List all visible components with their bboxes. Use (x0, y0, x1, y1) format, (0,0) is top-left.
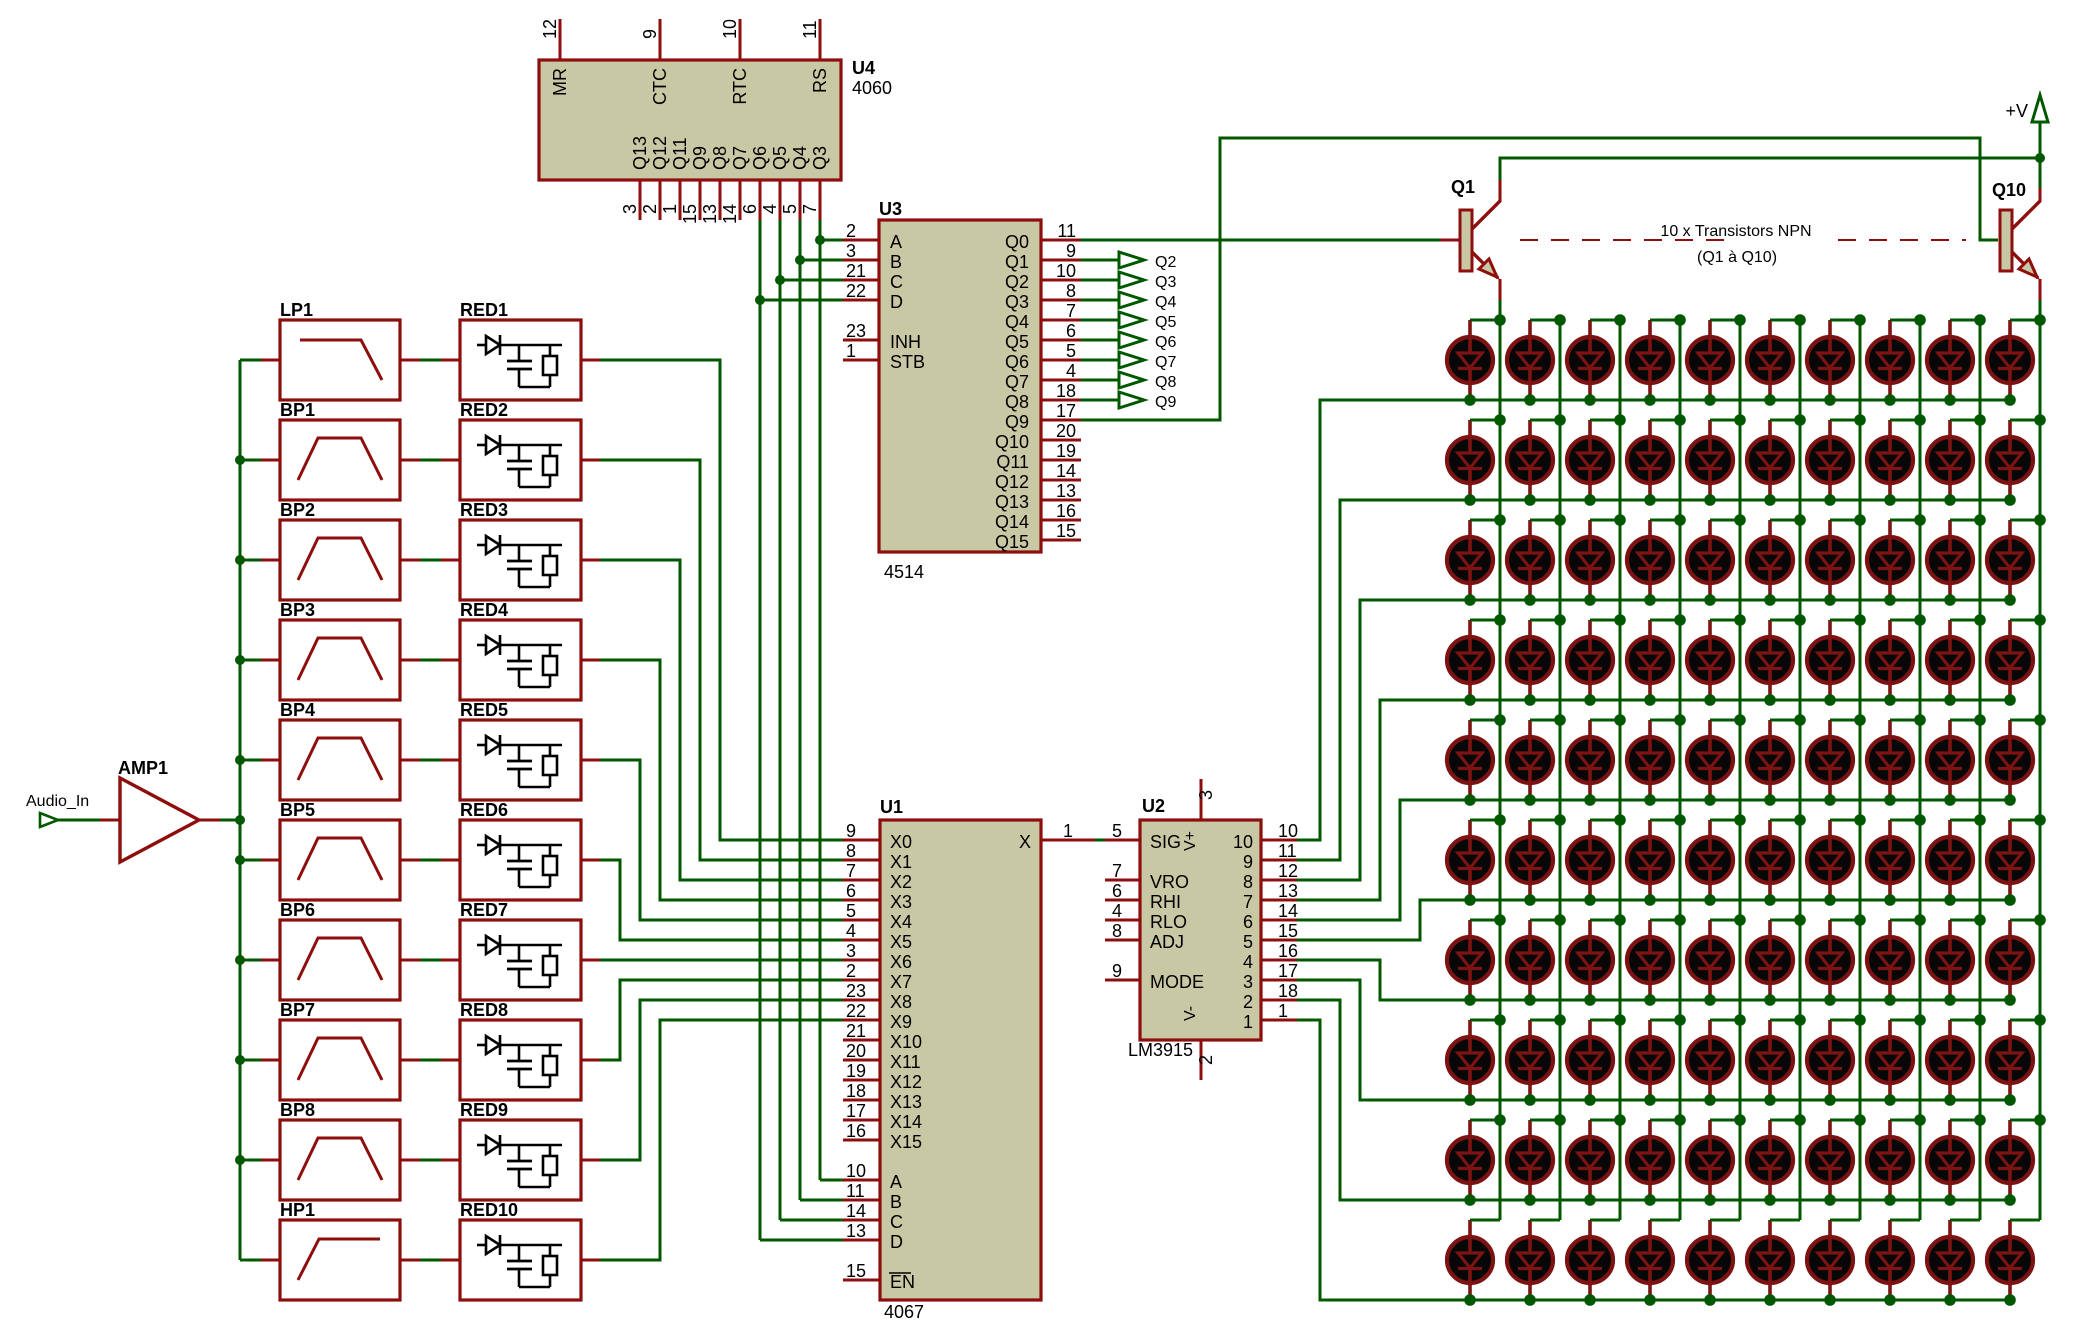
LED D79 (row 8, col 9) (1927, 1020, 1980, 1106)
LED D32 (row 4, col 2) (1507, 620, 1560, 706)
svg-text:X13: X13 (890, 1092, 922, 1112)
svg-text:BP8: BP8 (280, 1100, 315, 1120)
junction column 10 row 3 (2034, 514, 2046, 526)
wire BP5 output to RED6 input (400, 859, 420, 862)
LED D4 (row 1, col 4) (1627, 320, 1680, 406)
RED3 internal diode (477, 544, 486, 547)
junction column 4 row 8 (1674, 1014, 1686, 1026)
junction column 9 row 5 (1974, 714, 1986, 726)
wire RED9 output (581, 1159, 600, 1162)
junction column 1 row 7 (1494, 914, 1506, 926)
svg-text:Q4: Q4 (790, 146, 810, 170)
U2 left pin 8 (ADJ) (1105, 939, 1140, 942)
svg-text:10: 10 (720, 19, 740, 39)
wire U2 output to LED row y=1200 (1297, 1000, 2010, 1200)
junction column 5 row 2 (1734, 414, 1746, 426)
U3 left pin 23 (INH) (843, 339, 879, 342)
RED2 internal resistor (543, 456, 557, 475)
transistor Q1 (NPN) (1460, 210, 1472, 271)
LED D75 (row 8, col 5) (1687, 1020, 1740, 1106)
LED D53 (row 6, col 3) (1567, 820, 1620, 906)
LED D97 (row 10, col 7) (1807, 1220, 1860, 1306)
RED3 internal resistor (543, 556, 557, 575)
LED D11 (row 2, col 1) (1447, 420, 1500, 506)
svg-text:BP6: BP6 (280, 900, 315, 920)
svg-text:6: 6 (1066, 321, 1076, 341)
junction filter bus (235, 1155, 245, 1165)
RED2 internal capacitor (518, 445, 521, 460)
svg-text:13: 13 (700, 204, 720, 224)
svg-text:Q15: Q15 (995, 532, 1029, 552)
filter block BP2 (280, 520, 400, 600)
wire bus to BP2 input (240, 559, 261, 562)
junction column 10 row 2 (2034, 414, 2046, 426)
svg-text:Q6: Q6 (1005, 352, 1029, 372)
wire LED anode column 3 (1619, 320, 1622, 1220)
svg-text:5: 5 (846, 901, 856, 921)
LED D30 (row 3, col 10) (1987, 520, 2040, 606)
svg-text:V+: V+ (1182, 831, 1199, 851)
junction column 7 row 5 (1854, 714, 1866, 726)
junction column 3 row 9 (1614, 1114, 1626, 1126)
LED D36 (row 4, col 6) (1747, 620, 1800, 706)
svg-text:X0: X0 (890, 832, 912, 852)
svg-text:21: 21 (846, 1021, 866, 1041)
svg-text:X12: X12 (890, 1072, 922, 1092)
LED D26 (row 3, col 6) (1747, 520, 1800, 606)
U3 right pin 13 (Q13) (1041, 499, 1081, 502)
junction column 8 row 6 (1914, 814, 1926, 826)
junction column 5 row 4 (1734, 614, 1746, 626)
junction column 4 row 7 (1674, 914, 1686, 926)
LED D69 (row 7, col 9) (1927, 920, 1980, 1006)
svg-text:Q14: Q14 (995, 512, 1029, 532)
LED D38 (row 4, col 8) (1867, 620, 1920, 706)
U3 right pin 6 (Q5) (1041, 339, 1081, 342)
svg-text:X11: X11 (890, 1052, 921, 1072)
junction column 3 row 5 (1614, 714, 1626, 726)
LED D93 (row 10, col 3) (1567, 1220, 1620, 1306)
LED D57 (row 6, col 7) (1807, 820, 1860, 906)
wire U2 output to LED row y=1100 (1297, 980, 2010, 1100)
wire Q1 emitter to LED column 1 (1499, 300, 1502, 320)
rectifier block RED1 (460, 320, 581, 400)
LED D56 (row 6, col 6) (1747, 820, 1800, 906)
rectifier block RED5 (460, 720, 581, 800)
svg-text:X2: X2 (890, 872, 912, 892)
junction column 4 row 9 (1674, 1114, 1686, 1126)
junction column 4 row 4 (1674, 614, 1686, 626)
svg-text:CTC: CTC (650, 68, 670, 105)
RED3 internal capacitor (518, 545, 521, 560)
svg-text:X15: X15 (890, 1132, 922, 1152)
U2 right pin 11 (L9) (1261, 859, 1297, 862)
svg-text:9: 9 (846, 821, 856, 841)
wire RED1 to U1 input (600, 360, 843, 840)
svg-text:5: 5 (1066, 341, 1076, 361)
U4 bottom pin 15 (Q9) (699, 180, 702, 220)
junction column 3 row 6 (1614, 814, 1626, 826)
LED D63 (row 7, col 3) (1567, 920, 1620, 1006)
junction column 8 row 4 (1914, 614, 1926, 626)
svg-text:X14: X14 (890, 1112, 922, 1132)
LED D44 (row 5, col 4) (1627, 720, 1680, 806)
svg-text:10: 10 (1056, 261, 1076, 281)
svg-text:BP2: BP2 (280, 500, 315, 520)
wire U4 Q5 to U3.C and U1.C (779, 220, 782, 1220)
RED7 internal capacitor (518, 945, 521, 960)
svg-text:22: 22 (846, 1001, 866, 1021)
LED D92 (row 10, col 2) (1507, 1220, 1560, 1306)
wire U4 Q6 to U3.D and U1.D (759, 220, 762, 1240)
svg-text:X1: X1 (890, 852, 912, 872)
svg-text:1: 1 (1243, 1012, 1253, 1032)
svg-text:15: 15 (846, 1261, 866, 1281)
power symbol +V (2032, 95, 2048, 122)
filter block BP1 (280, 420, 400, 500)
svg-text:17: 17 (846, 1101, 866, 1121)
junction column 10 row 5 (2034, 714, 2046, 726)
svg-text:4514: 4514 (884, 562, 924, 582)
filter block BP8 (280, 1120, 400, 1200)
svg-text:BP3: BP3 (280, 600, 315, 620)
U1 left pin 6 (X3) (843, 899, 880, 902)
svg-text:10: 10 (1278, 821, 1298, 841)
U3 right pin 10 (Q2) (1041, 279, 1081, 282)
junction column 4 row 2 (1674, 414, 1686, 426)
LED D31 (row 4, col 1) (1447, 620, 1500, 706)
wire U3.Q2 to connector (1081, 279, 1119, 282)
LED D70 (row 7, col 10) (1987, 920, 2040, 1006)
junction column 8 row 9 (1914, 1114, 1926, 1126)
junction column 7 row 3 (1854, 514, 1866, 526)
LED D18 (row 2, col 8) (1867, 420, 1920, 506)
junction U3.B bus (795, 255, 805, 265)
svg-text:23: 23 (846, 981, 866, 1001)
wire U3.Q0 to Q1 base (1081, 239, 1440, 242)
junction column 3 row 8 (1614, 1014, 1626, 1026)
wire bus to BP1 input (240, 459, 261, 462)
LED D3 (row 1, col 3) (1567, 320, 1620, 406)
RED6 internal diode (477, 844, 486, 847)
U1 left pin 21 (X10) (843, 1039, 880, 1042)
svg-text:17: 17 (1056, 401, 1076, 421)
svg-text:4067: 4067 (884, 1302, 924, 1322)
LED D22 (row 3, col 2) (1507, 520, 1560, 606)
svg-text:1: 1 (1278, 1001, 1288, 1021)
svg-text:HP1: HP1 (280, 1200, 315, 1220)
svg-text:RED1: RED1 (460, 300, 508, 320)
svg-text:9: 9 (1066, 241, 1076, 261)
wire RED10 to U1 input (600, 1020, 843, 1260)
svg-text:7: 7 (1066, 301, 1076, 321)
junction column 8 row 2 (1914, 414, 1926, 426)
filter block BP6 (280, 920, 400, 1000)
filter block BP7 (280, 1020, 400, 1100)
svg-text:4060: 4060 (852, 78, 892, 98)
wire RED8 to U1 input (600, 980, 843, 1060)
wire U3.Q4 to connector (1081, 319, 1119, 322)
svg-text:RED5: RED5 (460, 700, 508, 720)
svg-text:(Q1 à Q10): (Q1 à Q10) (1697, 249, 1777, 266)
U1 left pin 4 (X5) (843, 939, 880, 942)
wire U3.Q9 to Q10 base (1081, 138, 1998, 420)
wire RED6 to U1 input (600, 860, 843, 940)
wire BP7 output to RED8 input (400, 1059, 420, 1062)
wire BP4 output to RED5 input (400, 759, 420, 762)
filter block LP1 (280, 320, 400, 400)
svg-text:Q3: Q3 (1155, 274, 1176, 291)
rectifier block RED8 (460, 1020, 581, 1100)
LED D20 (row 2, col 10) (1987, 420, 2040, 506)
svg-text:7: 7 (800, 204, 820, 214)
junction column 8 row 1 (1914, 314, 1926, 326)
svg-text:BP5: BP5 (280, 800, 315, 820)
svg-text:RED7: RED7 (460, 900, 508, 920)
filter block BP4 (280, 720, 400, 800)
junction column 9 row 8 (1974, 1014, 1986, 1026)
svg-text:STB: STB (890, 352, 925, 372)
junction column 2 row 9 (1554, 1114, 1566, 1126)
junction column 6 row 2 (1794, 414, 1806, 426)
LED D2 (row 1, col 2) (1507, 320, 1560, 406)
wire HP1 output to RED10 input (400, 1259, 420, 1262)
LED D1 (row 1, col 1) (1447, 320, 1500, 406)
junction column 9 row 4 (1974, 614, 1986, 626)
junction column 2 row 5 (1554, 714, 1566, 726)
wire U3.Q7 to connector (1081, 379, 1119, 382)
U2 left pin 9 (MODE) (1105, 979, 1140, 982)
U1 left pin 9 (X0) (843, 839, 880, 842)
svg-text:13: 13 (1056, 481, 1076, 501)
LED D46 (row 5, col 6) (1747, 720, 1800, 806)
U1 left pin 5 (X4) (843, 919, 880, 922)
op-amp AMP1 (120, 778, 199, 862)
svg-text:10: 10 (846, 1161, 866, 1181)
svg-text:8: 8 (846, 841, 856, 861)
LED D54 (row 6, col 4) (1627, 820, 1680, 906)
LED D23 (row 3, col 3) (1567, 520, 1620, 606)
svg-text:11: 11 (1278, 841, 1297, 861)
net connector Q2 (1119, 252, 1144, 268)
LED D89 (row 9, col 9) (1927, 1120, 1980, 1206)
svg-text:INH: INH (890, 332, 921, 352)
U3 left pin 1 (STB) (843, 359, 879, 362)
junction column 4 row 3 (1674, 514, 1686, 526)
U4 bottom pin 14 (Q7) (739, 180, 742, 220)
wire U3.Q8 to connector (1081, 399, 1119, 402)
junction column 8 row 3 (1914, 514, 1926, 526)
U3 right pin 15 (Q15) (1041, 539, 1081, 542)
LED D74 (row 8, col 4) (1627, 1020, 1680, 1106)
svg-text:14: 14 (1278, 901, 1298, 921)
RED9 internal diode (477, 1144, 486, 1147)
RED4 internal resistor (543, 656, 557, 675)
svg-text:15: 15 (680, 204, 700, 224)
dashed line transistor row (right) (1838, 239, 1966, 241)
svg-text:RED10: RED10 (460, 1200, 518, 1220)
wire Q10 emitter to LED column 10 (2039, 300, 2042, 320)
svg-text:RED8: RED8 (460, 1000, 508, 1020)
svg-text:U2: U2 (1142, 796, 1165, 816)
wire Audio_In to AMP1 (58, 819, 100, 822)
rectifier block RED2 (460, 420, 581, 500)
U1 left pin 14 (C) (843, 1219, 880, 1222)
svg-text:3: 3 (846, 941, 856, 961)
RED5 internal diode (477, 744, 486, 747)
svg-text:Q8: Q8 (710, 146, 730, 170)
svg-text:20: 20 (846, 1041, 866, 1061)
svg-text:RED6: RED6 (460, 800, 508, 820)
svg-text:7: 7 (1112, 861, 1122, 881)
LED D41 (row 5, col 1) (1447, 720, 1500, 806)
RED7 internal resistor (543, 956, 557, 975)
svg-text:RTC: RTC (730, 68, 750, 105)
junction column 9 row 3 (1974, 514, 1986, 526)
U1 left pin 17 (X14) (843, 1119, 880, 1122)
LED D68 (row 7, col 8) (1867, 920, 1920, 1006)
junction column 1 row 4 (1494, 614, 1506, 626)
svg-text:11: 11 (1057, 221, 1076, 241)
svg-text:Q4: Q4 (1155, 294, 1176, 311)
svg-text:Q10: Q10 (1992, 180, 2026, 200)
svg-text:8: 8 (1066, 281, 1076, 301)
svg-text:Audio_In: Audio_In (26, 793, 89, 810)
svg-text:6: 6 (846, 881, 856, 901)
U3 right pin 9 (Q1) (1041, 259, 1081, 262)
wire bus to BP7 input (240, 1059, 261, 1062)
junction column 1 row 1 (1494, 314, 1506, 326)
LED D88 (row 9, col 8) (1867, 1120, 1920, 1206)
wire bus to HP1 input (240, 1259, 261, 1262)
LED D71 (row 8, col 1) (1447, 1020, 1500, 1106)
net connector Q9 (1119, 392, 1144, 408)
rectifier block RED3 (460, 520, 581, 600)
wire LED anode column 4 (1679, 320, 1682, 1220)
svg-text:5: 5 (1112, 821, 1122, 841)
RED9 internal resistor (543, 1156, 557, 1175)
svg-text:15: 15 (1056, 521, 1076, 541)
wire RED7 to U1 input (600, 959, 843, 962)
svg-text:Q5: Q5 (770, 146, 790, 170)
wire RED1 output (581, 359, 600, 362)
wire U3.Q6 to connector (1081, 359, 1119, 362)
RED10 internal resistor (543, 1256, 557, 1275)
svg-text:LP1: LP1 (280, 300, 313, 320)
svg-text:X8: X8 (890, 992, 912, 1012)
svg-text:6: 6 (1112, 881, 1122, 901)
U2 left pin 5 (SIG) (1105, 839, 1140, 842)
junction column 8 row 8 (1914, 1014, 1926, 1026)
junction column 3 row 1 (1614, 314, 1626, 326)
junction filter bus (235, 755, 245, 765)
svg-text:RED3: RED3 (460, 500, 508, 520)
svg-text:V-: V- (1182, 1006, 1199, 1021)
junction column 5 row 5 (1734, 714, 1746, 726)
LED D49 (row 5, col 9) (1927, 720, 1980, 806)
junction column 9 row 7 (1974, 914, 1986, 926)
LED D28 (row 3, col 8) (1867, 520, 1920, 606)
svg-text:Q12: Q12 (650, 136, 670, 170)
wire U2 output to LED row y=500 (1297, 500, 2010, 860)
IC U3 (4514 demultiplexer) body (879, 220, 1041, 552)
junction column 10 row 9 (2034, 1114, 2046, 1126)
svg-text:6: 6 (1243, 912, 1253, 932)
svg-text:RS: RS (810, 68, 830, 93)
svg-text:RED9: RED9 (460, 1100, 508, 1120)
wire bus to BP8 input (240, 1159, 261, 1162)
junction column 10 row 1 (2034, 314, 2046, 326)
RED10 internal capacitor (518, 1245, 521, 1260)
wire BP1 output to RED2 input (400, 459, 420, 462)
junction filter bus (235, 1055, 245, 1065)
LED D84 (row 9, col 4) (1627, 1120, 1680, 1206)
net connector Q5 (1119, 312, 1144, 328)
svg-text:19: 19 (1056, 441, 1076, 461)
wire RED4 output (581, 659, 600, 662)
LED D47 (row 5, col 7) (1807, 720, 1860, 806)
svg-text:LM3915: LM3915 (1128, 1040, 1193, 1060)
junction column 9 row 6 (1974, 814, 1986, 826)
svg-text:U4: U4 (852, 58, 875, 78)
svg-text:20: 20 (1056, 421, 1076, 441)
junction column 6 row 7 (1794, 914, 1806, 926)
svg-text:EN: EN (890, 1272, 915, 1292)
wire LED anode column 5 (1739, 320, 1742, 1220)
svg-text:D: D (890, 1232, 903, 1252)
wire U1.X to U2.SIG (1095, 839, 1118, 842)
RED1 internal diode (477, 344, 486, 347)
junction column 4 row 6 (1674, 814, 1686, 826)
U1 left pin 13 (D) (843, 1239, 880, 1242)
svg-text:3: 3 (620, 204, 640, 214)
svg-text:4: 4 (1066, 361, 1076, 381)
LED D95 (row 10, col 5) (1687, 1220, 1740, 1306)
wire +V to transistor collectors (2039, 122, 2042, 188)
LED D13 (row 2, col 3) (1567, 420, 1620, 506)
RED8 internal diode (477, 1044, 486, 1047)
svg-text:RED4: RED4 (460, 600, 508, 620)
U1 left pin 19 (X12) (843, 1079, 880, 1082)
junction column 3 row 7 (1614, 914, 1626, 926)
junction column 6 row 3 (1794, 514, 1806, 526)
LED D21 (row 3, col 1) (1447, 520, 1500, 606)
wire BP2 output to RED3 input (400, 559, 420, 562)
LED D66 (row 7, col 6) (1747, 920, 1800, 1006)
filter block BP3 (280, 620, 400, 700)
wire bus to BP4 input (240, 759, 261, 762)
LED D61 (row 7, col 1) (1447, 920, 1500, 1006)
junction filter bus (235, 955, 245, 965)
LED D64 (row 7, col 4) (1627, 920, 1680, 1006)
LED D33 (row 4, col 3) (1567, 620, 1620, 706)
svg-text:12: 12 (540, 19, 560, 39)
RED9 internal capacitor (518, 1145, 521, 1160)
wire bus to BP5 input (240, 859, 261, 862)
junction column 2 row 2 (1554, 414, 1566, 426)
junction U3.C bus (775, 275, 785, 285)
svg-text:1: 1 (1063, 821, 1073, 841)
svg-text:18: 18 (1056, 381, 1076, 401)
LED D5 (row 1, col 5) (1687, 320, 1740, 406)
RED6 internal capacitor (518, 845, 521, 860)
junction column 5 row 7 (1734, 914, 1746, 926)
svg-text:3: 3 (846, 241, 856, 261)
svg-text:RHI: RHI (1150, 892, 1181, 912)
svg-text:X7: X7 (890, 972, 912, 992)
LED D7 (row 1, col 7) (1807, 320, 1860, 406)
junction column 4 row 1 (1674, 314, 1686, 326)
